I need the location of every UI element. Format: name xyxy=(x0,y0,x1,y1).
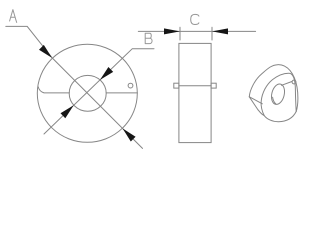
3D view outer silhouette bottom belt xyxy=(258,110,296,122)
diagonal B dimension line xyxy=(44,49,154,134)
3D view notch upper line xyxy=(249,97,262,104)
side view right tab xyxy=(211,83,216,88)
arrowheads xyxy=(39,28,228,141)
3D view front face ellipse xyxy=(261,73,296,116)
side view rectangle xyxy=(179,43,211,142)
notch on left of front view xyxy=(38,87,69,93)
side view mid line xyxy=(179,85,211,87)
extension tick right xyxy=(211,27,213,40)
C dimension line xyxy=(138,30,255,32)
label B xyxy=(145,33,152,43)
arrow C right xyxy=(212,28,228,34)
3D view slit line to small hole xyxy=(282,82,292,86)
extension tick left xyxy=(179,27,181,40)
arrow A outer bottom-right xyxy=(123,129,136,142)
3D view hole ellipse xyxy=(269,83,286,106)
small hole in front view xyxy=(128,83,133,88)
label C xyxy=(191,14,199,24)
3D view small hole xyxy=(292,80,296,84)
3D view hole far wall xyxy=(273,97,276,104)
inner circle (hole) of toroid front view xyxy=(69,75,106,111)
outer circle of toroid front view xyxy=(37,44,137,142)
label A xyxy=(10,10,17,23)
diagonal A dimension line xyxy=(6,26,143,148)
labels xyxy=(10,10,199,44)
arrow B inner top-right xyxy=(100,67,113,80)
side view left tab xyxy=(174,83,179,88)
arrow A outer top-left xyxy=(39,45,52,58)
3D view notch lower line xyxy=(249,97,258,110)
wire right horizontal cut line xyxy=(106,92,137,94)
arrow B inner bottom-left xyxy=(61,105,74,118)
3D view outer silhouette top sweep xyxy=(249,65,298,112)
arrow C left xyxy=(164,28,180,34)
